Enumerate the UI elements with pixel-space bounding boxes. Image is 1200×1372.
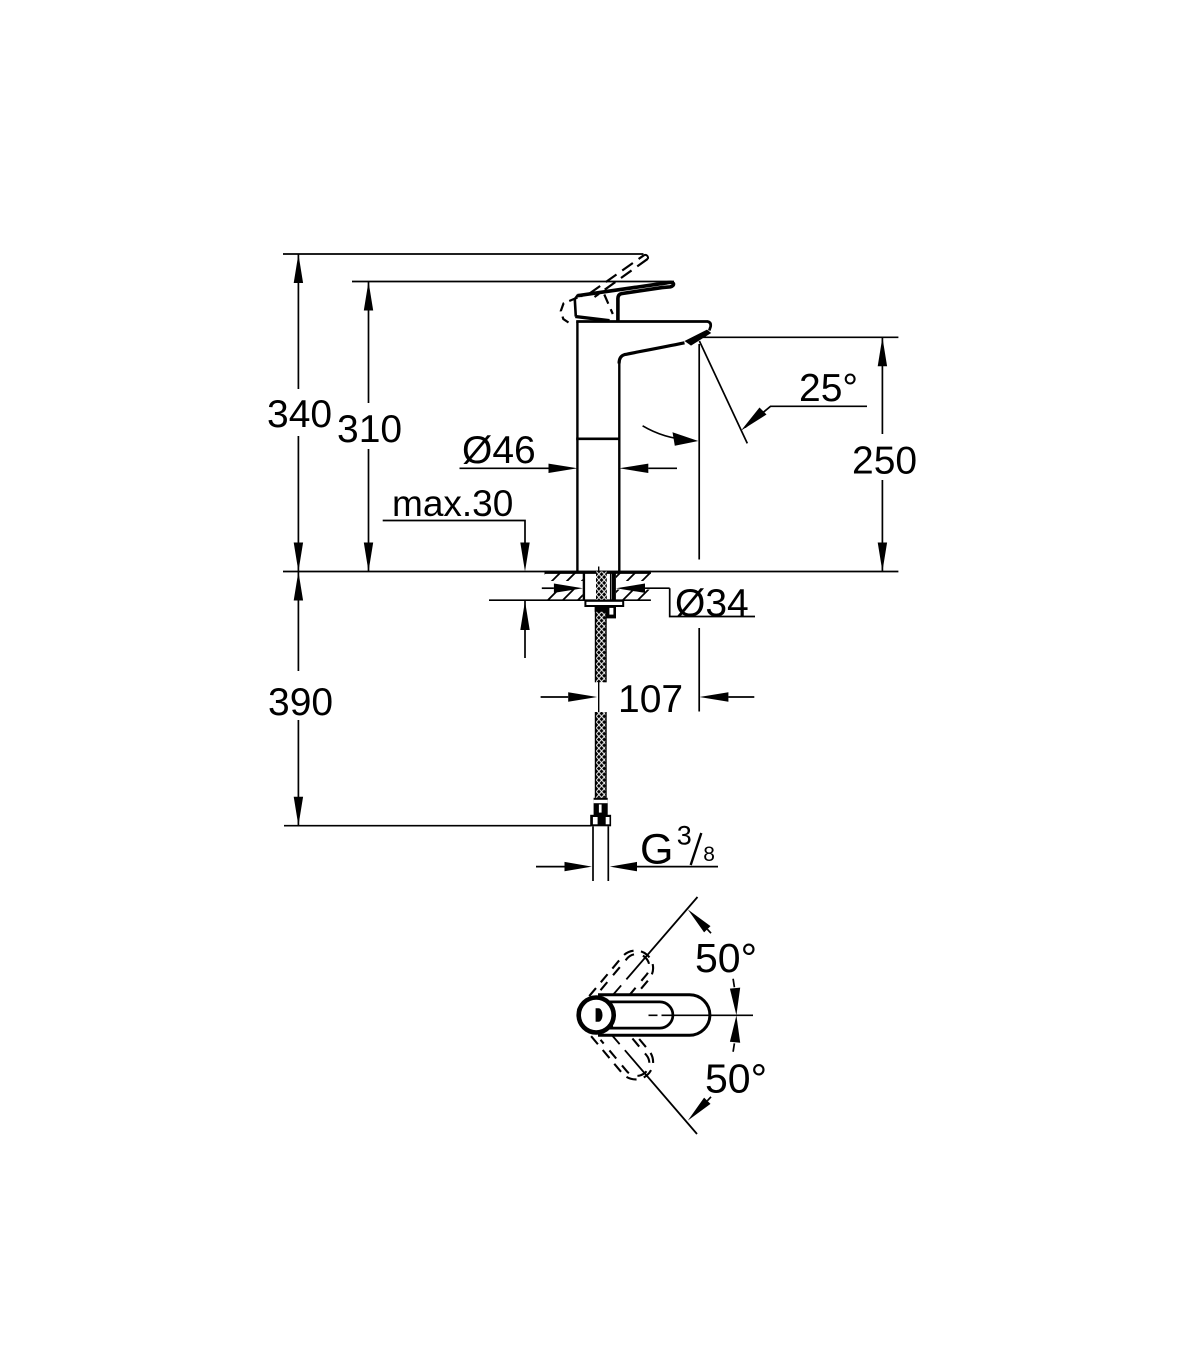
- svg-text:Ø34: Ø34: [675, 582, 749, 625]
- hose ferrule: [594, 798, 608, 816]
- dashed handle stadium rotated down 50: [578, 998, 661, 1087]
- top view 50deg lower diagonal line: [611, 1034, 698, 1135]
- lever raised dashed pivot outline: [561, 298, 578, 323]
- lever raised dashed upper edge: [590, 255, 645, 293]
- top view solid handle outer stadium: [596, 995, 710, 1036]
- deck cut surface thick segment: [545, 571, 651, 574]
- lever hidden dashed edge: [604, 295, 613, 315]
- svg-text:Ø46: Ø46: [462, 429, 536, 472]
- svg-text:25°: 25°: [799, 367, 858, 410]
- faucet body inner right edge: [618, 361, 620, 572]
- top view 50deg upper diagonal line: [612, 897, 698, 996]
- 50deg lower angle arrow: [688, 1098, 711, 1121]
- threaded stud through deck: [596, 572, 607, 601]
- svg-text:3: 3: [677, 820, 692, 850]
- svg-text:50°: 50°: [705, 1056, 767, 1102]
- 25deg angle arc with arrow: [643, 426, 688, 440]
- deck hatching left: [517, 571, 607, 601]
- 50deg center bowtie arrows: [730, 988, 740, 1016]
- dimension 310 vertical line: [368, 282, 370, 404]
- top view faucet circle: [579, 998, 614, 1033]
- svg-text:107: 107: [618, 678, 683, 721]
- top view inner stadium: [606, 1002, 673, 1028]
- faucet body top line: [576, 322, 711, 331]
- top view keyhole mark: [596, 1008, 603, 1022]
- top view small dots: [609, 1002, 613, 1006]
- dimension 107 arrows: [541, 696, 569, 698]
- top view centerline: [649, 1014, 754, 1016]
- label G3/8 with arrows: [536, 866, 565, 868]
- lever raised dashed lower edge: [595, 259, 648, 297]
- lever raised dashed tip: [644, 255, 648, 259]
- spout aerator dark face: [685, 330, 712, 346]
- dashed handle stadium rotated up 50: [578, 943, 661, 1032]
- dimension 250 vertical line: [881, 337, 883, 434]
- lever pivot corner notch: [577, 294, 582, 297]
- lever pivot left edge: [575, 295, 578, 317]
- deck top line: [283, 571, 898, 573]
- svg-text:390: 390: [268, 681, 333, 724]
- svg-text:max.30: max.30: [392, 483, 513, 524]
- deck hatching right: [592, 571, 667, 601]
- hose hex nut: [590, 815, 611, 827]
- stud stub above deck: [598, 567, 600, 572]
- dimension 310 extension line top: [352, 281, 674, 283]
- svg-text:250: 250: [852, 440, 917, 483]
- shank right thin line: [610, 572, 612, 600]
- lever handle solid top edge with tip: [578, 282, 674, 321]
- dimension 340 extension line top: [283, 253, 644, 255]
- washer under deck: [585, 601, 623, 606]
- dimension 250 extension line top: [703, 336, 898, 338]
- flexible hose lower braid: [595, 712, 607, 798]
- faucet body joint line: [576, 437, 620, 440]
- svg-text:340: 340: [267, 393, 332, 436]
- 50deg upper angle arrow: [688, 910, 711, 933]
- label D34 with leader arrows: [542, 587, 554, 589]
- mounting shank left edge: [583, 572, 585, 600]
- shank right thick bar: [612, 572, 616, 600]
- hose break thin line: [598, 682, 600, 712]
- svg-text:G: G: [640, 826, 673, 874]
- deck bottom line: [489, 599, 651, 601]
- svg-text:8: 8: [703, 843, 715, 866]
- 25deg spout angle diagonal line: [699, 341, 747, 443]
- spout tip vertical extension line: [698, 344, 700, 560]
- dimension 390 vertical line: [297, 572, 299, 672]
- faucet body left edge: [576, 322, 578, 572]
- lever pivot bottom edge: [575, 317, 609, 321]
- G3/8 connection tube: [592, 826, 594, 881]
- svg-text:50°: 50°: [695, 935, 757, 981]
- dimension 340 vertical line: [297, 254, 299, 389]
- flexible hose upper braid: [595, 606, 607, 682]
- mounting nut: [595, 606, 616, 612]
- dimension 390 extension line bottom: [284, 825, 592, 827]
- spout underside curve: [619, 343, 684, 364]
- svg-text:310: 310: [337, 408, 402, 451]
